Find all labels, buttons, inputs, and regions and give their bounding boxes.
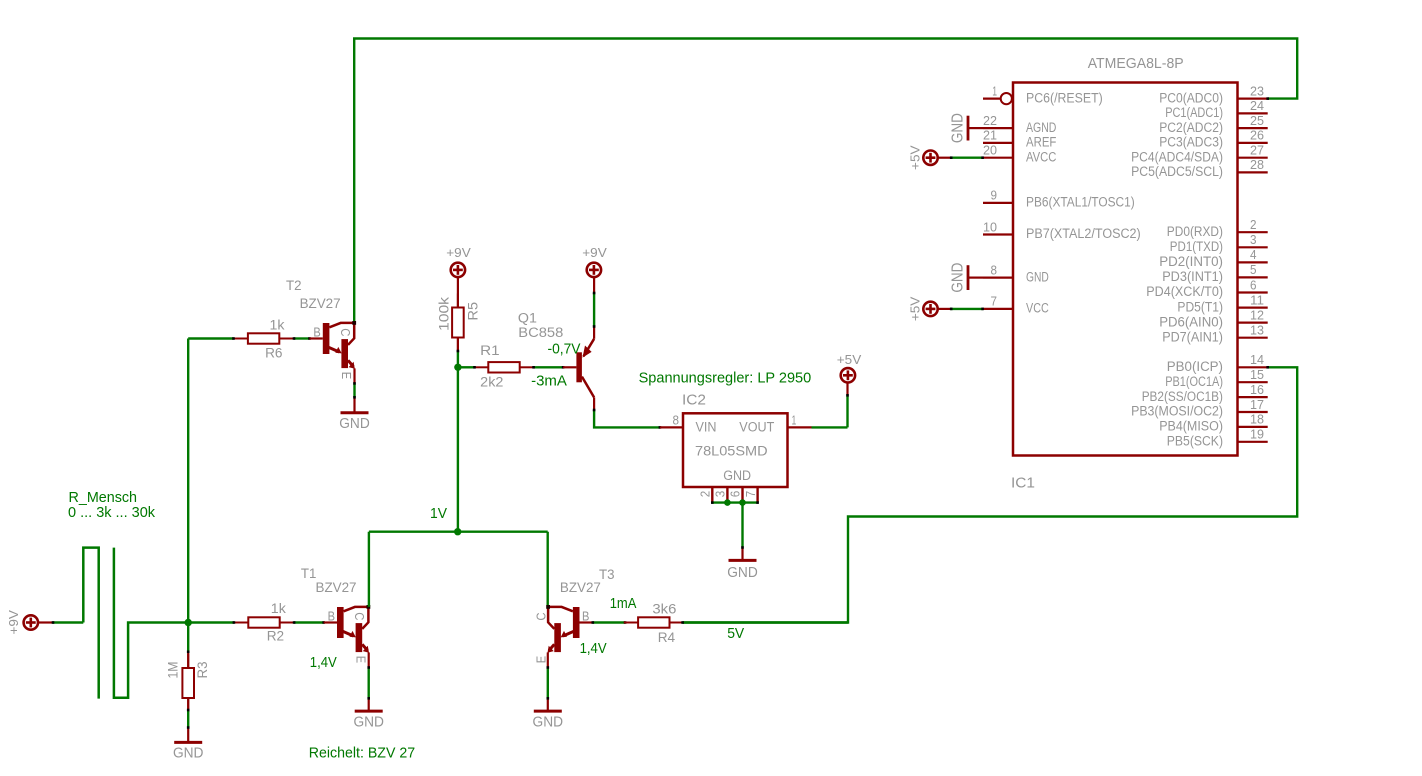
svg-text:ATMEGA8L-8P: ATMEGA8L-8P [1088,55,1184,72]
svg-text:+9V: +9V [6,610,21,635]
svg-text:PB2(SS/OC1B): PB2(SS/OC1B) [1142,389,1223,405]
svg-text:1,4V: 1,4V [310,655,337,671]
svg-text:13: 13 [1250,323,1264,338]
svg-text:VIN: VIN [696,420,717,436]
svg-text:19: 19 [1250,427,1264,442]
svg-text:23: 23 [1250,83,1264,98]
svg-text:8: 8 [991,262,998,277]
svg-text:7: 7 [743,491,758,498]
svg-text:R6: R6 [265,346,283,362]
svg-text:2k2: 2k2 [480,375,503,391]
svg-text:18: 18 [1250,412,1264,427]
svg-text:9: 9 [991,188,998,203]
svg-text:Spannungsregler: LP 2950: Spannungsregler: LP 2950 [639,371,812,387]
svg-text:-3mA: -3mA [531,374,567,390]
svg-text:PC2(ADC2): PC2(ADC2) [1159,120,1223,136]
svg-text:GND: GND [723,468,751,484]
svg-text:GND: GND [1026,269,1049,285]
svg-text:R3: R3 [195,661,211,678]
svg-text:6: 6 [1250,277,1257,292]
svg-text:PB4(MISO): PB4(MISO) [1159,419,1223,435]
svg-text:VOUT: VOUT [739,420,774,436]
svg-text:B: B [582,609,589,623]
svg-text:B: B [328,609,335,623]
svg-text:2: 2 [698,491,713,498]
svg-text:PC5(ADC5/SCL): PC5(ADC5/SCL) [1131,164,1223,180]
svg-text:12: 12 [1250,307,1264,322]
svg-text:T2: T2 [286,278,302,294]
svg-text:VCC: VCC [1026,301,1049,317]
svg-text:PB0(ICP): PB0(ICP) [1167,359,1223,375]
svg-text:PD1(TXD): PD1(TXD) [1170,239,1223,255]
svg-text:7: 7 [991,294,998,309]
svg-text:3: 3 [1250,232,1257,247]
svg-text:AREF: AREF [1026,135,1057,151]
svg-text:R5: R5 [465,302,481,321]
svg-text:24: 24 [1250,98,1264,113]
svg-text:E: E [353,656,367,663]
svg-text:PD5(T1): PD5(T1) [1177,299,1223,315]
svg-text:PD6(AIN0): PD6(AIN0) [1159,314,1223,330]
svg-text:PB5(SCK): PB5(SCK) [1167,434,1223,450]
svg-text:R2: R2 [267,628,285,644]
svg-text:22: 22 [983,113,997,128]
svg-text:PB7(XTAL2/TOSC2): PB7(XTAL2/TOSC2) [1026,226,1141,242]
svg-text:AGND: AGND [1026,120,1056,136]
svg-text:PC3(ADC3): PC3(ADC3) [1159,135,1223,151]
svg-text:25: 25 [1250,113,1264,128]
svg-text:IC2: IC2 [682,393,706,409]
svg-text:PC0(ADC0): PC0(ADC0) [1159,90,1223,106]
svg-text:GND: GND [533,714,564,730]
svg-text:T1: T1 [301,566,317,582]
svg-text:26: 26 [1250,128,1264,143]
svg-text:Reichelt: BZV 27: Reichelt: BZV 27 [309,746,415,762]
svg-text:27: 27 [1250,143,1264,158]
svg-text:BZV27: BZV27 [300,296,341,312]
svg-text:28: 28 [1250,157,1264,172]
svg-text:PD2(INT0): PD2(INT0) [1159,254,1223,270]
svg-text:R4: R4 [658,630,676,646]
svg-text:BZV27: BZV27 [316,580,357,596]
svg-text:+9V: +9V [446,245,471,260]
svg-text:C: C [534,613,548,621]
svg-text:B: B [313,325,320,339]
svg-text:1V: 1V [430,506,447,522]
svg-text:6: 6 [728,491,743,498]
svg-text:E: E [339,372,353,379]
svg-text:1: 1 [792,412,797,427]
svg-text:8: 8 [673,412,680,427]
svg-text:PD7(AIN1): PD7(AIN1) [1162,329,1223,345]
svg-text:GND: GND [353,714,384,730]
svg-text:PB3(MOSI/OC2): PB3(MOSI/OC2) [1131,404,1223,420]
svg-text:78L05SMD: 78L05SMD [695,443,768,459]
svg-text:PC1(ADC1): PC1(ADC1) [1165,105,1223,121]
svg-text:PD0(RXD): PD0(RXD) [1167,224,1223,240]
svg-text:4: 4 [1250,247,1257,262]
svg-text:+9V: +9V [582,245,607,260]
svg-text:2: 2 [1250,217,1257,232]
svg-text:GND: GND [727,565,758,581]
svg-text:R_Mensch: R_Mensch [69,490,138,506]
svg-text:GND: GND [339,416,370,432]
svg-text:11: 11 [1250,292,1264,307]
svg-text:GND: GND [950,263,967,293]
svg-text:20: 20 [983,143,997,158]
svg-text:100k: 100k [436,296,452,331]
svg-text:BZV27: BZV27 [560,580,601,596]
svg-text:3k6: 3k6 [652,602,676,618]
svg-text:PC6(/RESET): PC6(/RESET) [1026,90,1103,106]
svg-text:1M: 1M [166,662,182,679]
svg-text:R1: R1 [480,343,500,359]
svg-text:16: 16 [1250,382,1264,397]
svg-text:AVCC: AVCC [1026,149,1056,165]
svg-text:PD4(XCK/T0): PD4(XCK/T0) [1146,284,1223,300]
svg-text:BC858: BC858 [518,325,563,341]
svg-text:PB1(OC1A): PB1(OC1A) [1165,374,1223,390]
svg-text:1,4V: 1,4V [580,641,607,657]
svg-text:T3: T3 [599,567,615,583]
svg-text:PC4(ADC4/SDA): PC4(ADC4/SDA) [1131,149,1223,165]
svg-text:5V: 5V [727,626,744,642]
svg-text:+5V: +5V [908,145,923,170]
svg-text:IC1: IC1 [1011,476,1035,492]
svg-text:PB6(XTAL1/TOSC1): PB6(XTAL1/TOSC1) [1026,195,1135,211]
svg-text:GND: GND [950,113,967,143]
svg-text:10: 10 [983,219,997,234]
svg-text:17: 17 [1250,397,1264,412]
svg-text:3: 3 [713,491,728,498]
svg-text:GND: GND [173,746,204,762]
svg-text:21: 21 [983,128,997,143]
svg-text:PD3(INT1): PD3(INT1) [1162,269,1223,285]
svg-text:0 ... 3k ... 30k: 0 ... 3k ... 30k [68,505,156,521]
svg-text:+5V: +5V [837,352,862,367]
svg-text:1mA: 1mA [610,596,637,612]
svg-text:14: 14 [1250,352,1264,367]
svg-text:1k: 1k [270,317,286,333]
svg-text:1: 1 [992,83,997,98]
svg-text:15: 15 [1250,367,1264,382]
svg-text:-0,7V: -0,7V [548,341,581,357]
svg-text:5: 5 [1250,262,1257,277]
svg-text:C: C [352,612,366,620]
svg-text:+5V: +5V [908,296,923,321]
svg-text:E: E [534,656,548,663]
svg-text:1k: 1k [271,601,287,617]
svg-text:C: C [338,328,352,336]
